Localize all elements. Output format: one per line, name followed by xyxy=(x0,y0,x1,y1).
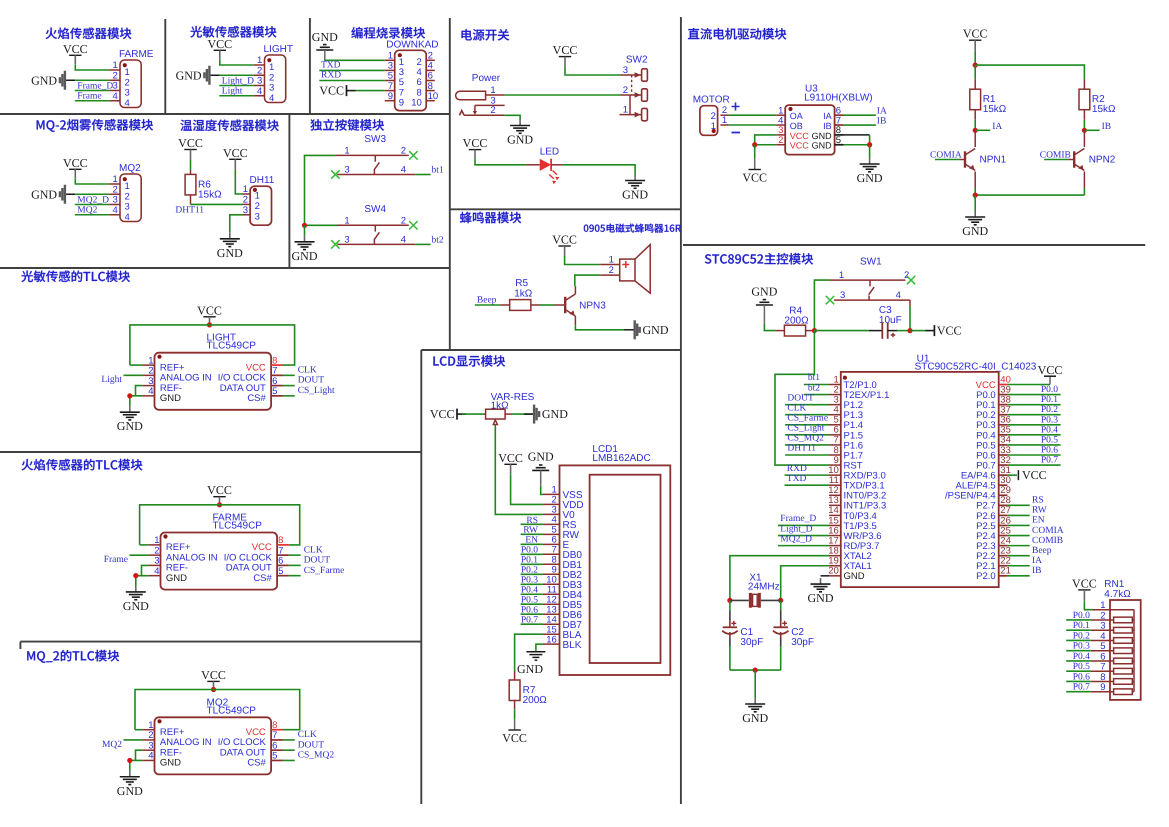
U1 pin 5 xyxy=(829,424,841,426)
svg-text:P0.0: P0.0 xyxy=(1073,611,1090,621)
svg-text:VCC: VCC xyxy=(319,84,344,98)
svg-text:3: 3 xyxy=(243,205,248,216)
net label CS_Farme / wire pin5 xyxy=(289,575,301,577)
svg-text:STC90C52RC-40I_C14023: STC90C52RC-40I_C14023 xyxy=(915,362,1037,373)
pin 4 xyxy=(109,100,120,102)
svg-text:4: 4 xyxy=(113,91,118,102)
net label DOUT / wire pin6 xyxy=(283,749,295,751)
U3 pin 8 xyxy=(835,134,844,136)
U1 pin 37 xyxy=(999,414,1008,416)
svg-text:MQ2_D: MQ2_D xyxy=(780,534,812,544)
svg-text:IB: IB xyxy=(1102,122,1112,132)
wire Power pin1 to SW2 pin2 xyxy=(505,94,621,96)
svg-text:P2.0: P2.0 xyxy=(976,571,996,582)
net label bt1 / wire xyxy=(415,174,430,176)
svg-text:VCC: VCC xyxy=(790,131,810,141)
LCD pin 13 xyxy=(543,613,560,615)
U1 pin 27 xyxy=(999,514,1008,516)
svg-text:OA: OA xyxy=(790,111,803,121)
svg-text:10: 10 xyxy=(411,97,422,108)
svg-text:P0.5: P0.5 xyxy=(1041,435,1058,445)
pin 2 xyxy=(109,79,120,81)
transistor NPN1 xyxy=(964,151,966,167)
pin 1 xyxy=(142,729,154,731)
svg-text:GND: GND xyxy=(117,419,143,433)
wire U3 GND pins xyxy=(844,134,870,136)
svg-text:CLK: CLK xyxy=(304,545,323,555)
pin 3 xyxy=(142,385,154,387)
svg-text:24MHz: 24MHz xyxy=(748,582,780,593)
svg-text:GND: GND xyxy=(857,171,883,185)
svg-text:GND: GND xyxy=(176,68,202,82)
svg-text:P0.4: P0.4 xyxy=(1073,652,1090,662)
svg-text:VCC: VCC xyxy=(63,42,88,56)
svg-text:4: 4 xyxy=(148,751,153,762)
LCD pin 8 xyxy=(543,563,560,565)
pin 3 xyxy=(109,204,120,206)
resistor R5 xyxy=(510,300,531,311)
svg-text:IB: IB xyxy=(1032,566,1042,576)
svg-text:Light_D: Light_D xyxy=(780,524,812,534)
net label IA / wire xyxy=(844,114,876,116)
collector pin xyxy=(574,286,576,294)
svg-text:GND: GND xyxy=(312,30,338,44)
svg-text:16: 16 xyxy=(546,634,557,645)
svg-text:GND: GND xyxy=(812,131,833,141)
svg-text:1: 1 xyxy=(490,85,495,96)
svg-text:DHT11: DHT11 xyxy=(175,205,204,215)
svg-text:CS_MQ2: CS_MQ2 xyxy=(298,751,335,761)
capacitor C1 xyxy=(729,600,731,610)
net label DOUT / wire U1 pin 3 xyxy=(785,404,829,406)
SW2 dashed link xyxy=(631,75,633,95)
net label CLK / wire U1 pin 4 xyxy=(785,414,829,416)
svg-text:Beep: Beep xyxy=(1032,546,1052,556)
pin 7 xyxy=(271,374,283,376)
svg-text:BLK: BLK xyxy=(563,640,582,651)
svg-text:5: 5 xyxy=(272,386,277,397)
wire VAR-RES to GND xyxy=(512,413,533,415)
U1 pin 3 xyxy=(829,404,841,406)
U3 pin 4 xyxy=(776,124,785,126)
svg-text:VCC: VCC xyxy=(1072,576,1097,590)
U1 pin 31 xyxy=(999,474,1008,476)
power GND (arrow) xyxy=(64,71,66,90)
power GND (earth) xyxy=(754,698,756,704)
svg-text:TXD: TXD xyxy=(321,61,341,71)
U1 pin 28 xyxy=(999,504,1008,506)
wire pin1 xyxy=(75,179,109,185)
wire pin4 to GND xyxy=(136,576,149,586)
net label P0.1 / wire xyxy=(1066,629,1091,631)
svg-text:P0.6: P0.6 xyxy=(1041,445,1058,455)
svg-text:bt2: bt2 xyxy=(808,383,820,393)
svg-text:SW4: SW4 xyxy=(364,204,386,215)
net label P0.4 / wire U1 pin 35 xyxy=(1007,434,1060,436)
pin 2 xyxy=(142,374,154,376)
RN1 pin 8 xyxy=(1091,680,1114,682)
U3 pin 2 xyxy=(776,144,785,146)
svg-text:200Ω: 200Ω xyxy=(523,695,548,706)
wire VCC to speaker pin1 xyxy=(565,256,601,265)
svg-text:CS#: CS# xyxy=(247,758,266,769)
svg-text:GND: GND xyxy=(844,571,865,582)
net label IB / wire xyxy=(844,124,876,126)
svg-text:IB: IB xyxy=(823,121,832,131)
NPN1 xyxy=(974,130,976,147)
net label RXD / wire U1 pin 10 xyxy=(785,474,830,476)
svg-text:1: 1 xyxy=(344,215,349,226)
no-connect X xyxy=(409,151,417,159)
wire wiper to LCD V0 xyxy=(495,425,543,515)
resistor R7 xyxy=(509,680,520,701)
svg-text:GND: GND xyxy=(622,188,648,202)
svg-text:DOUT: DOUT xyxy=(298,740,325,750)
svg-text:LMB162ADC: LMB162ADC xyxy=(592,453,650,464)
no-connect X xyxy=(907,276,915,284)
wire VCC loop xyxy=(140,505,300,545)
wire pin3 to GND net xyxy=(136,386,143,396)
svg-text:COMIA: COMIA xyxy=(1032,526,1064,536)
svg-text:P0.6: P0.6 xyxy=(1073,672,1090,682)
U3 pin 1 xyxy=(776,114,785,116)
pin 2 xyxy=(148,554,160,556)
U1 pin 33 xyxy=(999,454,1008,456)
power GND (earth) xyxy=(135,586,137,592)
svg-text:IA: IA xyxy=(1032,556,1042,566)
pin 9 xyxy=(385,100,395,102)
pin 4 xyxy=(148,575,160,577)
wire pin4 to GND xyxy=(130,396,143,406)
U1 pin 35 xyxy=(999,434,1008,436)
U3 pin 3 xyxy=(776,134,785,136)
svg-text:4: 4 xyxy=(896,290,901,301)
power VCC (side) xyxy=(456,409,458,420)
U1 pin 15 xyxy=(829,524,841,526)
svg-text:4: 4 xyxy=(125,212,130,223)
wire DHT11 xyxy=(191,203,243,205)
Power pin3 xyxy=(475,104,505,106)
pin 1 xyxy=(243,193,251,195)
power VCC (inverted) xyxy=(508,729,520,731)
svg-text:L9110H(XBLW): L9110H(XBLW) xyxy=(804,92,873,103)
svg-text:EN: EN xyxy=(1032,516,1045,526)
svg-text:P0.5: P0.5 xyxy=(1073,662,1090,672)
RN1 pin 2 xyxy=(1091,619,1114,621)
power VCC (side) xyxy=(910,330,926,332)
svg-text:GND: GND xyxy=(507,133,533,147)
resistor R2 xyxy=(1079,89,1090,110)
pin 4 xyxy=(426,69,435,71)
pin 4 xyxy=(142,759,154,761)
RN1 pin 6 xyxy=(1091,660,1114,662)
net label Frame_D / wire U1 pin 15 xyxy=(778,524,829,526)
net label DHT11 / wire U1 pin 8 xyxy=(785,454,829,456)
LCD pin 7 xyxy=(543,553,560,555)
resistor R6 xyxy=(185,174,196,195)
svg-text:2: 2 xyxy=(401,215,406,226)
svg-text:5: 5 xyxy=(272,751,277,762)
power GND (arrow) xyxy=(64,185,66,204)
pin 6 xyxy=(271,749,283,751)
no-connect X xyxy=(331,170,339,178)
svg-text:GND: GND xyxy=(31,187,57,201)
svg-text:1kΩ: 1kΩ xyxy=(491,401,510,412)
svg-text:GND: GND xyxy=(217,246,243,260)
resistor R7 xyxy=(514,671,516,680)
svg-text:Frame_D: Frame_D xyxy=(780,514,816,524)
U1 pin 11 xyxy=(829,484,841,486)
wire GND to R4 xyxy=(764,324,775,331)
net label P0.3 / wire xyxy=(1066,650,1091,652)
svg-text:CS_Light: CS_Light xyxy=(787,424,824,434)
svg-text:CS_MQ2: CS_MQ2 xyxy=(787,434,824,444)
net label P0.0 / wire U1 pin 39 xyxy=(1007,394,1060,396)
U1 pin 40 xyxy=(999,384,1008,386)
svg-text:CS#: CS# xyxy=(247,393,266,404)
wire VCC loop xyxy=(135,690,300,730)
U1 pin 36 xyxy=(999,424,1008,426)
svg-text:9: 9 xyxy=(1100,682,1105,693)
LCD pin 11 xyxy=(543,593,560,595)
svg-text:15kΩ: 15kΩ xyxy=(983,104,1007,115)
svg-text:4: 4 xyxy=(401,165,406,176)
U1 pin 1 xyxy=(829,384,841,386)
svg-text:9: 9 xyxy=(399,97,404,108)
svg-text:1: 1 xyxy=(243,184,248,195)
svg-text:15kΩ: 15kΩ xyxy=(1092,104,1116,115)
svg-text:4: 4 xyxy=(401,234,406,245)
net label EN / wire U1 pin 26 xyxy=(1007,524,1029,526)
svg-text:Power: Power xyxy=(472,73,501,84)
svg-text:3: 3 xyxy=(255,212,260,223)
svg-text:IA: IA xyxy=(992,122,1002,132)
svg-text:GND: GND xyxy=(160,758,181,769)
U1 pin 4 xyxy=(829,414,841,416)
net label P0.5 / wire xyxy=(1066,670,1091,672)
RN1 pin 3 xyxy=(1091,629,1114,631)
bottom rail / GND xyxy=(974,188,976,195)
svg-text:VCC: VCC xyxy=(463,136,488,150)
no-connect X xyxy=(331,240,339,248)
svg-text:4: 4 xyxy=(154,566,159,577)
wire pin2 xyxy=(75,79,109,81)
svg-text:VCC: VCC xyxy=(223,146,248,160)
svg-text:GND: GND xyxy=(528,449,554,463)
RN1 pin 5 xyxy=(1091,650,1114,652)
svg-text:DOUT: DOUT xyxy=(304,556,331,566)
svg-text:5: 5 xyxy=(278,566,283,577)
svg-text:CLK: CLK xyxy=(298,730,317,740)
LCD pin 5 xyxy=(543,533,560,535)
net label CS_MQ2 / wire pin5 xyxy=(283,759,295,761)
net label P0.7 / wire U1 pin 32 xyxy=(1007,464,1060,466)
wire Power pin2 to GND xyxy=(505,115,520,119)
svg-text:CLK: CLK xyxy=(298,365,317,375)
− xyxy=(732,132,741,134)
pin 2 xyxy=(254,74,265,76)
net label P0.5 / wire U1 pin 34 xyxy=(1007,444,1060,446)
svg-text:IB: IB xyxy=(877,116,887,126)
svg-text:P0.7: P0.7 xyxy=(1041,456,1058,466)
net label P0.7 / wire xyxy=(1066,691,1091,693)
U3 pin 7 xyxy=(835,124,844,126)
svg-text:GND: GND xyxy=(751,284,777,298)
svg-text:MQ2: MQ2 xyxy=(102,740,122,750)
power GND (earth) xyxy=(229,233,231,239)
pin 7 xyxy=(277,554,289,556)
svg-text:VCC: VCC xyxy=(201,668,226,682)
svg-text:RXD: RXD xyxy=(787,464,807,474)
net label P0.6 / wire U1 pin 33 xyxy=(1007,454,1060,456)
svg-text:Frame: Frame xyxy=(104,555,128,565)
U3 pin 6 xyxy=(835,114,844,116)
U1 pin 17 xyxy=(829,545,841,547)
power GND (below U3) xyxy=(869,145,871,158)
svg-text:P0.2: P0.2 xyxy=(1073,631,1090,641)
wire VCC to RN1 pin1 xyxy=(1084,601,1092,610)
svg-text:MOTOR: MOTOR xyxy=(693,95,730,106)
pin 8 xyxy=(426,90,435,92)
wire VCC loop xyxy=(130,325,295,365)
svg-text:MQ2: MQ2 xyxy=(119,163,141,174)
svg-text:15kΩ: 15kΩ xyxy=(198,189,222,200)
svg-text:GND: GND xyxy=(166,573,187,584)
wire R5 to base xyxy=(540,304,555,306)
svg-text:P0.3: P0.3 xyxy=(1041,415,1058,425)
svg-text:2: 2 xyxy=(255,201,260,212)
net label RS / wire U1 pin 28 xyxy=(1007,504,1029,506)
pin 5 xyxy=(277,575,289,577)
power GND (earth, inverted) xyxy=(756,304,773,306)
RN1 pin 7 xyxy=(1091,670,1114,672)
pin 3 xyxy=(142,749,154,751)
LCD pin 16 xyxy=(543,643,560,645)
net label P0.3 / wire U1 pin 36 xyxy=(1007,424,1060,426)
svg-text:GND: GND xyxy=(962,224,988,238)
LCD pin 3 xyxy=(543,513,560,515)
wire pin2 xyxy=(220,74,254,76)
svg-text:bt1: bt1 xyxy=(808,373,820,383)
net label CS_Light / wire U1 pin 6 xyxy=(785,434,829,436)
svg-text:P0.4: P0.4 xyxy=(1041,425,1058,435)
svg-text:RW: RW xyxy=(1032,506,1047,516)
pin 1 xyxy=(109,69,120,71)
wire pin3 to GND net xyxy=(136,750,143,760)
capacitor C2 xyxy=(780,600,782,610)
wire VCC to pin1 xyxy=(235,170,242,194)
RN1 pin 4 xyxy=(1091,639,1114,641)
U1 pin 14 xyxy=(829,514,841,516)
power GND (earth) xyxy=(304,236,306,242)
net label CS_Farme / wire U1 pin 5 xyxy=(785,424,829,426)
resistor R1 xyxy=(970,89,981,110)
svg-text:CS#: CS# xyxy=(253,573,272,584)
net label bt2 / wire xyxy=(415,243,430,245)
net label DOUT / wire pin6 xyxy=(283,385,295,387)
power VCC (below U3) xyxy=(754,145,756,158)
LCD pin 4 xyxy=(543,523,560,525)
wire MOTOR to U3 xyxy=(729,114,777,116)
transistor NPN2 xyxy=(1073,151,1075,167)
svg-text:GND: GND xyxy=(742,711,768,725)
svg-text:30pF: 30pF xyxy=(740,637,763,648)
pin 3 xyxy=(243,214,251,216)
net label RW / wire U1 pin 27 xyxy=(1007,514,1029,516)
U1 pin 21 xyxy=(999,575,1008,577)
svg-text:GND: GND xyxy=(808,591,834,605)
svg-text:VCC: VCC xyxy=(207,37,232,51)
svg-text:200Ω: 200Ω xyxy=(784,315,809,326)
svg-text:TLC549CP: TLC549CP xyxy=(207,705,257,716)
wire XTAL1 (pin19) xyxy=(781,566,829,601)
svg-text:SW2: SW2 xyxy=(626,55,648,66)
net label IA / wire U1 pin 22 xyxy=(1007,565,1029,567)
net label P0.2 / wire xyxy=(1066,639,1091,641)
svg-text:VCC: VCC xyxy=(1038,363,1063,377)
power GND (earth) xyxy=(869,158,871,164)
svg-text:LED: LED xyxy=(540,147,559,158)
svg-text:VCC: VCC xyxy=(197,303,222,317)
U1 pin 30 xyxy=(999,484,1008,486)
pin 4 xyxy=(254,95,265,97)
U1 pin 26 xyxy=(999,524,1008,526)
speaker pin1 xyxy=(600,264,620,266)
U1 pin 10 xyxy=(829,474,841,476)
svg-text:DH11: DH11 xyxy=(250,175,275,186)
U1 pin 19 xyxy=(829,565,841,567)
LCD pin 14 xyxy=(543,623,560,625)
U1 pin 29 xyxy=(999,494,1008,496)
U1 pin 23 xyxy=(999,555,1008,557)
svg-text:2: 2 xyxy=(904,270,909,281)
svg-text:2: 2 xyxy=(401,145,406,156)
U1 pin 16 xyxy=(829,535,841,537)
LCD pin 6 xyxy=(543,543,560,545)
svg-text:TLC549CP: TLC549CP xyxy=(207,341,257,352)
R2 xyxy=(1083,79,1085,89)
pin 8 xyxy=(277,544,289,546)
svg-text:4: 4 xyxy=(269,93,274,104)
svg-text:VCC: VCC xyxy=(937,324,962,338)
svg-text:VCC: VCC xyxy=(498,451,523,465)
power GND (earth, inverted) xyxy=(532,469,549,471)
net label Beep / wire U1 pin 23 xyxy=(1007,555,1029,557)
svg-text:3: 3 xyxy=(344,165,349,176)
LCD pin 12 xyxy=(543,603,560,605)
svg-text:CS_Light: CS_Light xyxy=(298,386,335,396)
pin 4 xyxy=(142,395,154,397)
svg-text:NPN2: NPN2 xyxy=(1089,154,1116,165)
svg-text:4: 4 xyxy=(148,386,153,397)
LCD pin 15 xyxy=(543,633,560,635)
emitter pin / wire to GND xyxy=(574,316,576,325)
capacitor C2 xyxy=(774,626,788,628)
pin 8 xyxy=(271,729,283,731)
power GND (earth) xyxy=(974,211,976,217)
wire VCC to LED xyxy=(475,159,526,165)
svg-text:DOWNKAD: DOWNKAD xyxy=(386,40,438,51)
net label TXD / wire U1 pin 11 xyxy=(785,484,830,486)
pin 1 xyxy=(385,59,395,61)
svg-text:10: 10 xyxy=(428,91,439,102)
wire pin4 to GND xyxy=(130,760,143,770)
net label DOUT / wire pin6 xyxy=(289,564,301,566)
wire SW1 pin4 down xyxy=(909,300,911,306)
svg-text:1: 1 xyxy=(623,105,628,116)
U1 pin 7 xyxy=(829,444,841,446)
wire caps to GND xyxy=(730,669,781,671)
